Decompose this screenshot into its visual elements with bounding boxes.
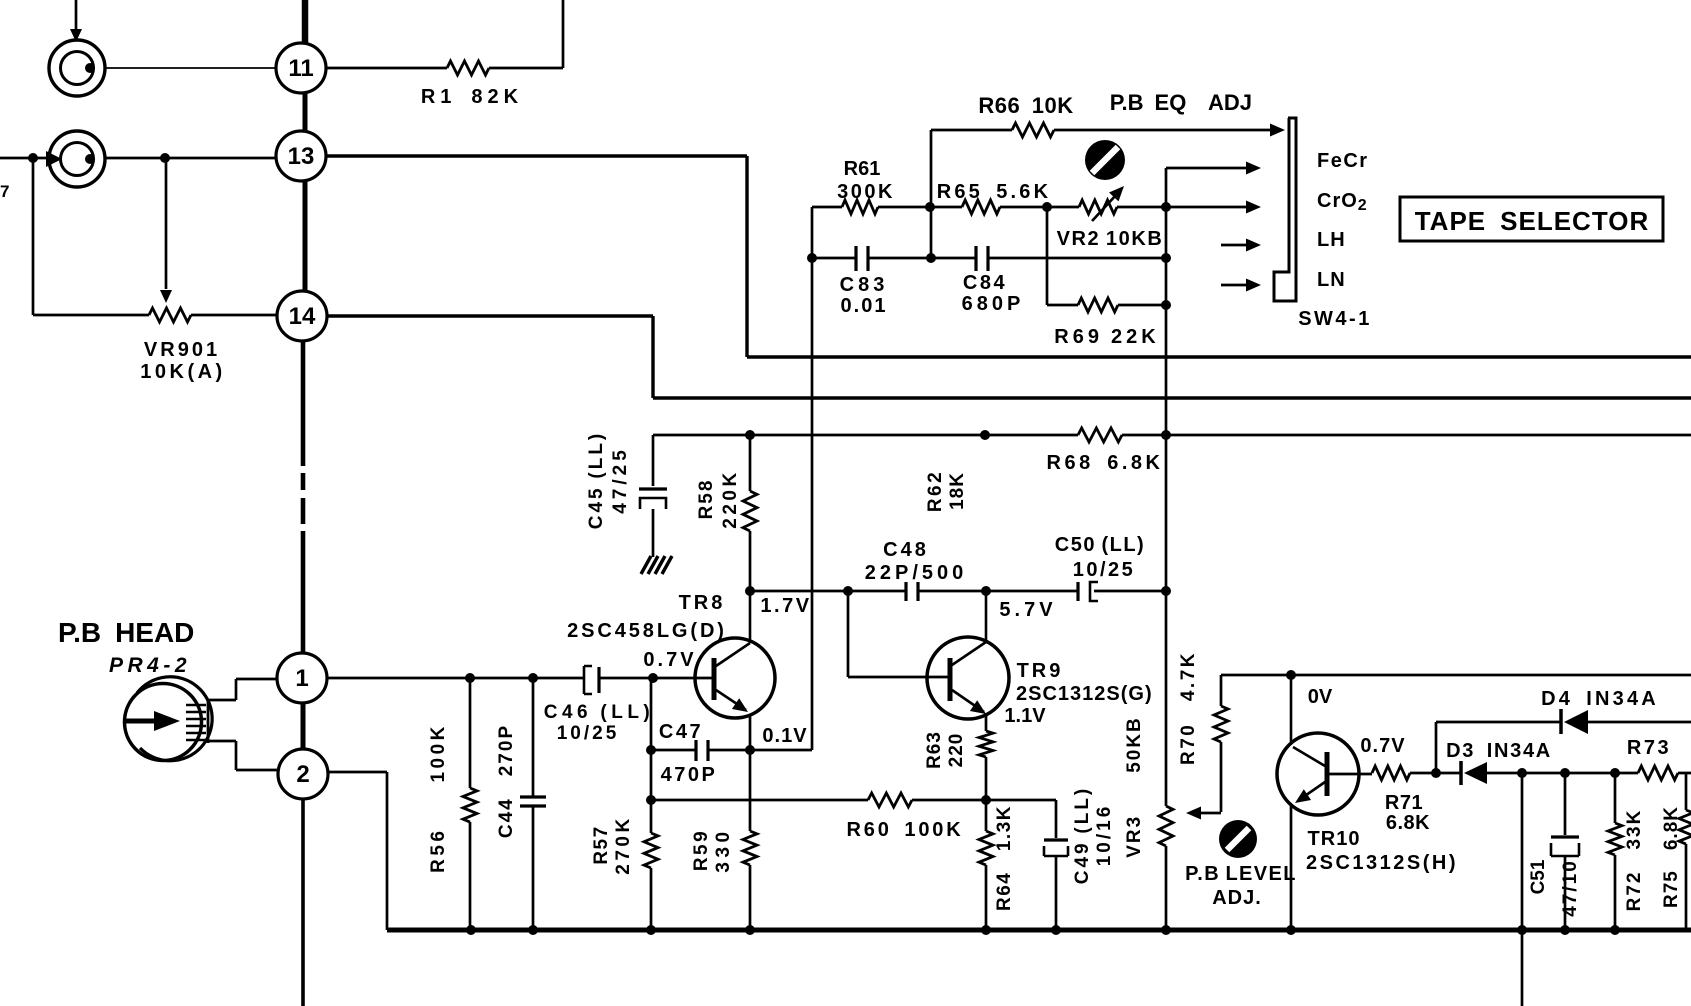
svg-text:R57: R57 <box>591 825 612 864</box>
svg-text:TAPE SELECTOR: TAPE SELECTOR <box>1415 206 1650 236</box>
svg-text:220: 220 <box>946 733 967 768</box>
svg-text:10/25: 10/25 <box>1073 559 1136 581</box>
svg-text:R62: R62 <box>925 470 946 512</box>
svg-text:P.B LEVEL: P.B LEVEL <box>1185 863 1297 885</box>
svg-text:270K: 270K <box>613 815 634 874</box>
svg-text:2SC1312S(H): 2SC1312S(H) <box>1306 852 1458 874</box>
svg-text:220K: 220K <box>720 469 741 528</box>
svg-text:R69 22K: R69 22K <box>1054 326 1159 348</box>
svg-text:TR10: TR10 <box>1308 828 1361 850</box>
svg-text:FeCr: FeCr <box>1317 150 1369 172</box>
svg-text:VR2 10KB: VR2 10KB <box>1057 228 1164 250</box>
svg-text:R56 100K: R56 100K <box>428 723 449 873</box>
svg-text:1: 1 <box>295 665 308 692</box>
svg-text:C51: C51 <box>1528 859 1549 894</box>
svg-text:R59: R59 <box>691 829 712 871</box>
svg-text:ADJ.: ADJ. <box>1212 887 1262 909</box>
svg-text:C47: C47 <box>659 721 703 743</box>
svg-text:10/25: 10/25 <box>557 723 620 744</box>
svg-text:R64 1.3K: R64 1.3K <box>994 805 1015 911</box>
svg-text:P.B HEAD: P.B HEAD <box>58 617 194 648</box>
svg-text:2: 2 <box>296 761 309 788</box>
svg-text:5.7V: 5.7V <box>999 599 1056 621</box>
svg-text:D3 IN34A: D3 IN34A <box>1446 740 1552 762</box>
svg-text:C48: C48 <box>883 539 929 561</box>
svg-text:47/10: 47/10 <box>1560 859 1581 917</box>
svg-text:11: 11 <box>288 55 313 82</box>
svg-text:C83: C83 <box>840 274 889 296</box>
svg-text:ADJ: ADJ <box>1208 90 1252 115</box>
svg-text:R1 82K: R1 82K <box>421 86 523 108</box>
svg-text:300K: 300K <box>837 181 895 203</box>
svg-text:7: 7 <box>0 182 9 201</box>
svg-text:1.7V: 1.7V <box>760 595 811 617</box>
svg-text:0V: 0V <box>1308 686 1333 708</box>
svg-text:22P/500: 22P/500 <box>865 562 968 584</box>
svg-text:C49 (LL): C49 (LL) <box>1072 786 1093 885</box>
svg-text:C44 270P: C44 270P <box>496 724 517 838</box>
svg-text:P.B EQ: P.B EQ <box>1110 90 1187 115</box>
svg-text:TR9: TR9 <box>1017 660 1064 682</box>
svg-text:SW4-1: SW4-1 <box>1298 308 1372 330</box>
svg-text:LN: LN <box>1317 269 1346 291</box>
svg-text:VR3 50KB: VR3 50KB <box>1124 716 1145 858</box>
svg-text:10K(A): 10K(A) <box>140 361 225 383</box>
svg-text:0.1V: 0.1V <box>762 725 807 747</box>
svg-text:R75 6.8K: R75 6.8K <box>1661 806 1682 908</box>
svg-text:0.01: 0.01 <box>841 295 888 317</box>
svg-text:R63: R63 <box>924 731 945 769</box>
svg-text:0.7V: 0.7V <box>1360 735 1405 757</box>
svg-text:10/16: 10/16 <box>1094 804 1115 867</box>
svg-text:13: 13 <box>288 143 315 170</box>
svg-text:1.1V: 1.1V <box>1004 705 1046 727</box>
svg-text:R73: R73 <box>1627 737 1671 759</box>
svg-text:R65 5.6K: R65 5.6K <box>937 181 1052 203</box>
svg-text:R68 6.8K: R68 6.8K <box>1047 452 1164 474</box>
svg-text:R71: R71 <box>1385 792 1423 814</box>
svg-text:PR4-2: PR4-2 <box>109 654 191 677</box>
svg-text:680P: 680P <box>962 293 1025 315</box>
svg-text:TR8: TR8 <box>679 592 726 614</box>
svg-text:R66 10K: R66 10K <box>978 93 1073 118</box>
svg-text:2SC458LG(D): 2SC458LG(D) <box>567 620 727 642</box>
svg-text:18K: 18K <box>947 472 968 510</box>
svg-text:6.8K: 6.8K <box>1386 812 1430 834</box>
svg-text:R61: R61 <box>844 158 881 180</box>
svg-text:R60 100K: R60 100K <box>847 819 964 841</box>
svg-text:R58: R58 <box>696 479 717 520</box>
svg-text:LH: LH <box>1317 229 1346 251</box>
svg-text:C45 (LL): C45 (LL) <box>586 431 607 530</box>
svg-text:C84: C84 <box>963 272 1007 294</box>
svg-text:2SC1312S(G): 2SC1312S(G) <box>1016 683 1153 705</box>
svg-text:CrO2: CrO2 <box>1317 190 1368 214</box>
svg-text:14: 14 <box>289 303 316 330</box>
svg-text:R70 4.7K: R70 4.7K <box>1178 651 1199 765</box>
svg-text:470P: 470P <box>661 764 718 786</box>
svg-text:R72 33K: R72 33K <box>1624 809 1645 912</box>
svg-text:VR901: VR901 <box>144 339 220 361</box>
svg-text:330: 330 <box>713 827 734 872</box>
svg-text:47/25: 47/25 <box>610 446 631 514</box>
svg-text:0.7V: 0.7V <box>643 649 696 671</box>
svg-text:C46 (LL): C46 (LL) <box>544 702 655 723</box>
svg-text:D4 IN34A: D4 IN34A <box>1541 688 1659 710</box>
svg-text:C50 (LL): C50 (LL) <box>1055 534 1145 556</box>
